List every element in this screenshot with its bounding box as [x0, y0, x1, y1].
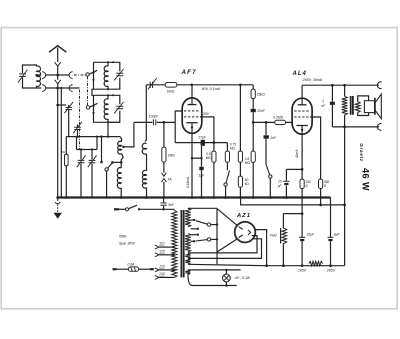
wire y88: [46, 87, 80, 90]
switch S3: [266, 164, 272, 197]
tube AZ1: [235, 222, 256, 243]
connector pair on antenna line 1: [42, 72, 72, 79]
svg-text:0.18mA: 0.18mA: [186, 177, 190, 188]
capacitor 20nF: [251, 109, 266, 151]
tuning loop wires: [77, 137, 98, 151]
dial lamp: [223, 270, 231, 286]
IF coil column x121: [117, 137, 123, 198]
ganging dash-dot links: [74, 75, 88, 150]
grid2 wire AF7 to resistor: [200, 117, 214, 151]
resistor 25k: [251, 85, 265, 109]
wire unit2 to node line: [108, 122, 120, 136]
field coil Feld: [270, 214, 303, 266]
anode rail AF7: [146, 83, 253, 86]
tuning gang capacitor C2: [88, 150, 97, 198]
capacitor 8uF: [327, 233, 340, 266]
HV secondary winding upper: [185, 208, 217, 227]
HV switch lower: [191, 238, 219, 243]
svg-text:110: 110: [159, 242, 164, 246]
svg-text:55W: 55W: [119, 235, 127, 239]
svg-text:10kΩ: 10kΩ: [167, 90, 175, 94]
wire y75: [46, 74, 70, 77]
coupling capacitor 100pF: [122, 114, 175, 148]
grid wire AL4: [253, 121, 292, 124]
HV center taps: [191, 228, 199, 236]
anode feed vertical and diagonals to AZ1: [217, 209, 238, 265]
cathode stub to 1uF node: [191, 157, 203, 159]
svg-text:2MΩ: 2MΩ: [168, 154, 176, 158]
power transformer core: [181, 210, 183, 277]
band coil unit 2: [92, 94, 123, 123]
grid line y142.6: [175, 141, 227, 144]
switch S2: [224, 171, 230, 198]
svg-text:30V: 30V: [203, 112, 210, 116]
speaker connector top: [377, 82, 381, 89]
trimmer capacitor T2: [73, 122, 82, 137]
antenna tap node: [56, 104, 66, 107]
capacitor 3nF: [321, 85, 335, 127]
capacitor 16uF: [299, 198, 315, 266]
svg-text:295V: 295V: [297, 269, 307, 273]
ground bus: [56, 196, 330, 199]
rectifier filament winding: [185, 254, 190, 259]
svg-text:Graetz: Graetz: [359, 143, 364, 162]
svg-text:Spar 30W: Spar 30W: [119, 241, 135, 245]
output transformer secondary + speaker: [355, 94, 381, 119]
tap 110: [155, 242, 175, 250]
svg-text:MΩ: MΩ: [230, 147, 236, 151]
tap 240: [155, 272, 175, 280]
svg-text:255V, 36mA: 255V, 36mA: [302, 78, 323, 82]
loop antenna L1 with variable capacitor: [18, 65, 41, 88]
anode rail AL4: [302, 84, 379, 87]
power transformer primary: [172, 210, 177, 278]
AZ1 filament wire a: [188, 236, 257, 253]
output transformer core: [351, 96, 353, 115]
svg-text:240: 240: [158, 272, 165, 276]
heater winding: [185, 259, 190, 264]
svg-text:1µF: 1µF: [199, 174, 206, 178]
HV switch upper: [191, 219, 219, 227]
band coil unit 1: [92, 61, 123, 90]
svg-text:42mA: 42mA: [295, 150, 299, 158]
tuning gang capacitor C1: [77, 150, 86, 198]
svg-text:265V: 265V: [326, 269, 336, 273]
svg-text:0.8A: 0.8A: [128, 262, 136, 266]
band switch S1b: [86, 103, 97, 109]
capacitor 1nF: [264, 122, 277, 164]
capacitor 5nF: [161, 198, 176, 210]
svg-text:90V, 0.1mA: 90V, 0.1mA: [202, 87, 221, 91]
svg-text:46 W: 46 W: [361, 168, 371, 191]
AZ1 filament wire b: [188, 239, 262, 259]
wire from y88 down to ground bus: [60, 88, 62, 198]
pickup TA arrows: [162, 173, 173, 198]
svg-text:Feld: Feld: [270, 234, 278, 238]
fuse 0.8A: [113, 262, 154, 271]
wire between band units: [92, 89, 94, 95]
svg-text:3: 3: [322, 100, 324, 104]
screen wire AL4: [310, 117, 321, 179]
resistor 0.8M (b): [251, 151, 255, 197]
bus drop to 8uF: [330, 198, 332, 238]
resistor 350: [319, 179, 330, 205]
output transformer primary: [342, 85, 348, 266]
svg-text:25kΩ: 25kΩ: [257, 93, 265, 97]
capacitor 25uF: [277, 169, 290, 197]
resistor 50k: [238, 176, 249, 199]
svg-text:AL4: AL4: [292, 71, 307, 77]
capacitor 27pF: [197, 135, 207, 158]
svg-text:kΩ: kΩ: [245, 182, 250, 186]
svg-text:220: 220: [158, 264, 165, 268]
grid1 wire AF7: [175, 111, 182, 143]
svg-text:100pF: 100pF: [149, 114, 159, 118]
resistor 2M: [162, 122, 176, 172]
svg-text:27pF: 27pF: [197, 135, 207, 139]
tube AL4: [292, 85, 312, 169]
svg-text:16µF: 16µF: [306, 233, 315, 237]
AZ1 cathode output: [255, 230, 266, 266]
capacitor 1uF: [199, 158, 206, 197]
svg-text:20nF: 20nF: [256, 109, 266, 113]
antenna: [49, 46, 66, 198]
resistor 0.8M (a): [206, 151, 216, 197]
mains switch: [114, 205, 174, 211]
pilot winding: [185, 269, 240, 287]
svg-text:1nF: 1nF: [270, 136, 277, 140]
connector pair on antenna line 2: [42, 85, 72, 92]
padder capacitor 50: [62, 137, 69, 198]
osc coil column x146: [142, 85, 146, 198]
svg-text:AF7: AF7: [181, 69, 197, 76]
trimmer capacitor T1: [64, 102, 73, 137]
resistor 10k: [165, 83, 177, 94]
screen feed column: [238, 85, 250, 176]
resistor 0.2M: [273, 116, 285, 125]
resistor 0.75M: [225, 143, 236, 171]
HT bottom line with dropper resistor: [188, 261, 345, 267]
ground symbol: [54, 198, 62, 219]
trimmer T3 on rail: [148, 78, 157, 89]
svg-text:MΩ: MΩ: [245, 161, 251, 165]
tap 220: [155, 264, 175, 272]
resistor 150: [300, 169, 311, 197]
node wire y136.6: [66, 135, 120, 137]
speaker connector bottom: [377, 123, 381, 130]
band shorting switch S1c: [100, 137, 121, 199]
svg-text:4V , 0.3A: 4V , 0.3A: [235, 276, 251, 280]
cathode node AL4: [286, 168, 303, 171]
svg-text:AZ1: AZ1: [236, 213, 251, 219]
HV secondary winding lower: [185, 233, 191, 252]
svg-text:MΩ: MΩ: [206, 156, 212, 160]
tap 125: [155, 249, 175, 256]
label 55W Spar 30W: [119, 235, 135, 246]
band switch S1a: [86, 70, 97, 76]
svg-text:8µF: 8µF: [334, 233, 341, 237]
HT line y204.9: [239, 196, 346, 206]
svg-text:0.2MΩ: 0.2MΩ: [273, 116, 283, 120]
svg-text:125: 125: [159, 249, 165, 253]
svg-text:50: 50: [62, 150, 66, 154]
tube AF7: [182, 85, 202, 198]
speaker return wire: [332, 126, 379, 129]
svg-text:5nF: 5nF: [168, 203, 175, 207]
